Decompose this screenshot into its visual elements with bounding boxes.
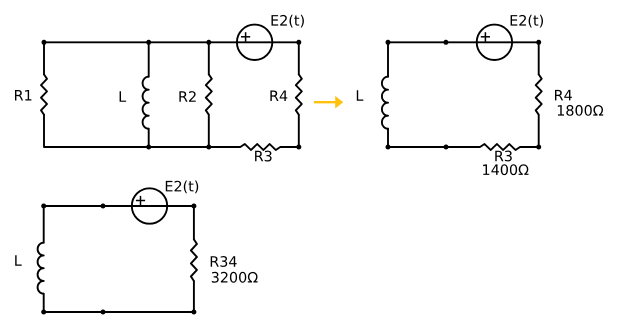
wire C1 bottom rail: node E to node F <box>44 146 149 148</box>
label L (circuit 2) <box>357 90 364 101</box>
wire C2 top rail: node J through source to node K <box>446 41 539 43</box>
wire C1 top rail: node A to node B <box>44 41 149 43</box>
label L (circuit 3) <box>15 255 22 266</box>
junction dot C2 node K (top-right) <box>536 40 541 45</box>
label E2(t) (circuit 1) <box>272 15 304 28</box>
resistor R3 (circuit 1) <box>240 144 280 150</box>
voltage source E2(t) (circuit 1) <box>237 25 272 60</box>
resistor R1 <box>43 42 45 74</box>
wire C3 bottom rail: node R to node S <box>44 311 103 313</box>
junction dot C3 node R (bottom-left) <box>41 310 46 315</box>
junction dot C1 node B (L top) <box>146 40 151 45</box>
wire C1 top rail: node B to node C <box>149 41 209 43</box>
junction dot C3 node Q (top-right) <box>191 204 196 209</box>
junction dot C1 node F (L bottom) <box>146 145 151 150</box>
junction dot C1 node H (R4 bottom) <box>296 145 301 150</box>
wire C1 bottom rail: node G to R3 left lead <box>209 146 241 148</box>
label R3 (circuit 1) <box>255 151 272 162</box>
label L (circuit 1) <box>120 91 127 102</box>
junction dot C1 node A (top-left) <box>42 40 47 45</box>
resistor R2 <box>208 42 210 74</box>
label R34 <box>211 256 237 267</box>
inductor L (circuit 1) <box>148 42 150 76</box>
wire C2 bottom rail: node M to R3 left lead <box>446 146 480 148</box>
resistor R34 3200&#8486; <box>193 206 195 239</box>
label E2(t) (circuit 3) <box>166 181 198 194</box>
junction dot C3 node O (top-left) <box>41 204 46 209</box>
junction dot C1 node G (R2 bottom) <box>206 145 211 150</box>
wire C2 bottom rail: R3 right lead to node N <box>520 146 539 148</box>
label E2(t) (circuit 2) <box>511 15 543 28</box>
wire C1 bottom rail: node F to node G <box>149 146 209 148</box>
inductor L (circuit 3) <box>43 206 45 243</box>
junction dot C1 node D (R4 top) <box>296 40 301 45</box>
value label 3200&#8486; <box>212 272 258 283</box>
junction dot C3 node P (top mid) <box>101 204 106 209</box>
resistor R4 1800&#8486; (circuit 2) <box>538 42 540 74</box>
wire C1 top rail: node C through source to node D <box>209 41 299 43</box>
wire C3 top rail: node P through source to node Q <box>103 205 194 207</box>
junction dot C3 node S (bottom mid) <box>101 310 106 315</box>
wire C2 top rail: node I to node J <box>388 41 446 43</box>
label R4 (circuit 2) <box>555 90 572 101</box>
value label 1400&#8486; <box>483 164 528 175</box>
label R2 <box>179 91 195 102</box>
wire C3 bottom rail: node S to node T <box>103 311 194 313</box>
label R1 <box>15 90 31 101</box>
junction dot C2 node M (bottom mid) <box>444 145 449 150</box>
label R4 (circuit 1) <box>270 91 287 102</box>
voltage source E2(t) (circuit 2) <box>477 25 512 60</box>
simplification arrow <box>314 96 343 109</box>
junction dot C3 node T (bottom-right) <box>191 310 196 315</box>
inductor L (circuit 2) <box>387 42 389 76</box>
wire C1 bottom rail: R3 right lead to node H <box>280 146 299 148</box>
wire C2 bottom rail: node L to node M <box>388 146 446 148</box>
junction dot C2 node N (bottom-right) <box>536 145 541 150</box>
resistor R3 1400&#8486; (circuit 2) <box>480 144 520 150</box>
label R3 (circuit 2) <box>495 151 512 162</box>
junction dot C1 node C (R2 top) <box>206 40 211 45</box>
junction dot C2 node J (top mid) <box>443 40 448 45</box>
voltage source E2(t) (circuit 3) <box>132 188 167 223</box>
junction dot C2 node L (bottom-left) <box>386 145 391 150</box>
wire C3 top rail: node O to node P <box>44 205 103 207</box>
value label 1800&#8486; <box>558 105 603 116</box>
resistor R4 (circuit 1) <box>298 42 300 74</box>
junction dot C2 node I (top-left) <box>386 40 391 45</box>
